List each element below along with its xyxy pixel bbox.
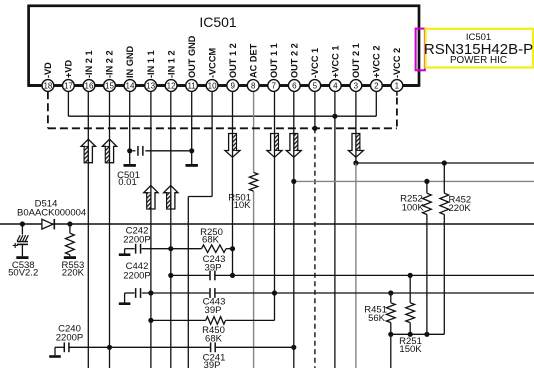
svg-text:16: 16 (85, 81, 94, 90)
junction pin15 C240 row (107, 345, 112, 350)
svg-text:-IN 1 1: -IN 1 1 (146, 50, 156, 78)
wire pin 4 vertical (334, 91, 336, 368)
svg-text:2: 2 (374, 81, 379, 90)
capacitor C242 with ground (125, 248, 135, 250)
svg-text:10: 10 (208, 81, 217, 90)
signal arrow up pin 13 (144, 186, 158, 210)
capacitor C241 (210, 342, 212, 352)
capacitor C442 with ground (125, 292, 135, 294)
svg-text:220K: 220K (62, 267, 85, 278)
wire pin 12 vertical (170, 91, 172, 368)
junction pin12 C242-R250 (168, 246, 173, 251)
svg-text:39P: 39P (205, 305, 222, 316)
IC501 power hybrid IC body (29, 6, 419, 86)
junction pin6 on L2 (291, 179, 296, 184)
capacitor C501 (132, 150, 135, 152)
svg-text:IN GND: IN GND (125, 45, 135, 78)
svg-text:9: 9 (230, 81, 235, 90)
pin 3 OUT 2 1 (350, 43, 362, 91)
ground T-bar under pin 14 (129, 151, 131, 164)
dashed HIC boundary below pin 18 (47, 91, 49, 128)
pin 15 -IN 2 2 (104, 50, 116, 91)
resistor R553 (69, 224, 71, 233)
wire pin 3 vertical upper (355, 91, 357, 163)
svg-text:13: 13 (146, 81, 155, 90)
junction R451 top on L6 (388, 290, 393, 295)
wire pin 14 to C501 node (129, 91, 131, 151)
wire L6 from C442 to right edge (142, 292, 210, 294)
resistor R450 (151, 319, 206, 321)
pin 16 -IN 2 1 (83, 50, 95, 91)
svg-text:17: 17 (64, 81, 73, 90)
junction +V bus at pin 4 (332, 114, 337, 119)
pin 13 -IN 1 1 (145, 50, 157, 91)
dashed HIC boundary below pin 1 (396, 91, 398, 96)
svg-text:68K: 68K (202, 235, 220, 246)
wire L1 from pin 3 to right edge (356, 162, 534, 164)
pin 12 -IN 1 2 (165, 50, 177, 91)
svg-text:-VD: -VD (43, 62, 53, 78)
svg-text:OUT 1 1: OUT 1 1 (269, 43, 279, 78)
svg-text:50V2.2: 50V2.2 (8, 267, 38, 278)
junction pin9 R250 (230, 246, 235, 251)
svg-text:3: 3 (354, 81, 359, 90)
resistor R501 (249, 172, 257, 191)
junction R252 top on L2 (424, 179, 429, 184)
wire pin 11 to C501 node (191, 91, 193, 151)
svg-text:-IN 2 2: -IN 2 2 (105, 50, 115, 78)
pin 4 +VCC 1 (329, 46, 341, 92)
wire pin 3 vertical lower gray (355, 163, 357, 368)
signal arrow down pin 7 (267, 134, 282, 158)
svg-text:OUT GND: OUT GND (187, 35, 197, 78)
junction pin13 on L6 (148, 290, 153, 295)
resistor R250 (171, 248, 202, 250)
junction R251 bottom (408, 332, 413, 337)
svg-text:0.01: 0.01 (118, 177, 137, 188)
svg-text:OUT 2 1: OUT 2 1 (351, 43, 361, 78)
wire pin 16 vertical (87, 91, 89, 368)
svg-text:1: 1 (395, 81, 400, 90)
resistor R452 (443, 163, 445, 193)
node pin3 to line L1 (353, 160, 358, 165)
svg-text:+VCC 1: +VCC 1 (331, 46, 341, 78)
wire pin 7 vertical (274, 91, 276, 293)
svg-text:7: 7 (271, 81, 276, 90)
svg-text:100K: 100K (402, 202, 425, 213)
svg-text:6: 6 (292, 81, 297, 90)
wire bottom tie R451-R251-R252-R452 (391, 333, 445, 335)
svg-text:OUT 1 2: OUT 1 2 (228, 43, 238, 78)
svg-text:5: 5 (313, 81, 318, 90)
svg-text:-IN 1 2: -IN 1 2 (166, 50, 176, 78)
svg-text:+: + (12, 241, 18, 252)
wire pin 6 vertical (293, 91, 295, 368)
wire pin 13 vertical (150, 91, 152, 368)
wire L3 full-width supply net (0, 223, 534, 225)
signal arrow up pin 16 (81, 139, 95, 163)
pin 8 AC DET (247, 43, 259, 91)
capacitor C240 with ground (55, 346, 64, 348)
svg-text:2200P: 2200P (123, 235, 150, 246)
svg-text:-IN 2 1: -IN 2 1 (84, 50, 94, 78)
resistor R252 (426, 181, 428, 193)
capacitor C538 electrolytic (21, 224, 23, 235)
dashed HIC boundary horizontal (48, 127, 397, 129)
junction R452 top on L1 (442, 160, 447, 165)
diode D514 (42, 219, 53, 229)
svg-text:4: 4 (333, 81, 338, 90)
svg-text:POWER HIC: POWER HIC (450, 55, 507, 66)
svg-text:14: 14 (126, 81, 135, 90)
svg-text:-VCC 2: -VCC 2 (392, 48, 402, 78)
svg-text:11: 11 (187, 81, 196, 90)
node C538 on L3 (20, 221, 25, 226)
junction R252 bottom (424, 332, 429, 337)
yellow callout box part number (426, 29, 534, 68)
wire pin 5 dashed shield line (314, 128, 316, 368)
ground T-bar under pin 11 (191, 151, 193, 164)
magenta pin-1 highlight bracket (416, 29, 425, 71)
signal arrow up pin 12 (164, 186, 178, 210)
svg-text:2200P: 2200P (56, 333, 83, 344)
wire pin 15 vertical (109, 91, 111, 368)
svg-text:B0AACK000004: B0AACK000004 (17, 207, 86, 218)
wire pin 8 AC DET gray (253, 91, 255, 172)
signal arrow down pin 3 (348, 134, 363, 158)
wire pin 10 jog elbow (211, 91, 213, 196)
signal arrow up pin 15 (102, 139, 116, 163)
svg-text:-VCCM: -VCCM (207, 48, 217, 78)
svg-text:IC501: IC501 (199, 14, 237, 30)
svg-text:39P: 39P (205, 263, 222, 274)
svg-text:18: 18 (43, 81, 52, 90)
svg-text:+VD: +VD (64, 60, 74, 78)
pin 18 -VD (42, 62, 54, 92)
junction pin13 R450 (148, 318, 153, 323)
svg-text:8: 8 (251, 81, 256, 90)
svg-text:68K: 68K (205, 333, 223, 344)
svg-text:12: 12 (167, 81, 176, 90)
svg-text:15: 15 (105, 81, 114, 90)
junction R251 top on L5 (408, 273, 413, 278)
resistor R251 (409, 275, 411, 302)
wire pin 9 vertical (232, 91, 234, 275)
capacitor C243 (209, 271, 211, 281)
svg-text:10K: 10K (234, 200, 252, 211)
svg-text:2200P: 2200P (123, 270, 150, 281)
resistor R451 (390, 293, 392, 303)
svg-text:39P: 39P (204, 360, 221, 368)
pin 14 IN GND (124, 45, 136, 91)
svg-text:-VCC 1: -VCC 1 (310, 48, 320, 78)
pin 11 OUT GND (186, 35, 198, 91)
junction pin7 end on L6 (272, 290, 277, 295)
svg-text:150K: 150K (399, 344, 422, 355)
junction pin12 on L5 (168, 273, 173, 278)
signal arrow down pin 9 (225, 134, 240, 158)
pin 7 OUT 1 1 (268, 43, 280, 91)
pin 1 -VCC 2 (391, 48, 403, 92)
node pin11-C501 junction (189, 148, 194, 153)
svg-text:AC DET: AC DET (248, 43, 258, 78)
svg-text:+VCC 2: +VCC 2 (372, 46, 382, 78)
node R553 on L3 (67, 221, 72, 226)
pin 5 -VCC 1 (309, 48, 321, 92)
wire L5 from pin 12 to right edge (171, 274, 210, 276)
pin 6 OUT 2 2 (288, 43, 300, 91)
pin 17 +VD (63, 60, 75, 92)
wire +V supply bus pin17-pin4-pin2 (67, 91, 69, 116)
junction pin9 end on L5 (230, 273, 235, 278)
IC501 bottom edge pin rail (28, 84, 420, 87)
capacitor C443 (209, 288, 211, 298)
node pin5 boundary junction (312, 126, 317, 131)
svg-text:220K: 220K (449, 203, 472, 214)
svg-text:56K: 56K (368, 313, 386, 324)
pin 9 OUT 1 2 (227, 43, 239, 91)
pin 2 +VCC 2 (371, 46, 383, 92)
signal arrow down pin 6 (286, 134, 301, 158)
junction R451 bottom (388, 332, 393, 337)
pin 10 -VCCM (206, 48, 218, 92)
junction pin6 end of row (291, 345, 296, 350)
wire pin 5 stub (314, 91, 316, 128)
node pin14-C501 junction (127, 148, 132, 153)
wire L2 gray from pin 6 to right edge (294, 180, 534, 182)
svg-text:OUT 2 2: OUT 2 2 (290, 43, 300, 78)
